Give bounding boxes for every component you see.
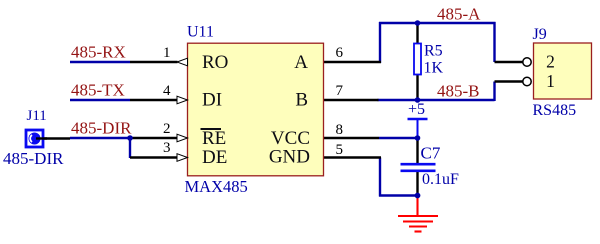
svg-text:A: A [294,52,308,73]
svg-text:RS485: RS485 [533,102,577,119]
svg-text:7: 7 [336,83,344,99]
svg-text:RE: RE [202,128,226,149]
svg-text:B: B [295,90,308,111]
svg-text:DI: DI [202,90,222,111]
svg-text:MAX485: MAX485 [185,177,248,196]
svg-text:1K: 1K [424,60,444,77]
svg-text:485-RX: 485-RX [71,43,126,62]
svg-text:GND: GND [269,147,310,168]
svg-text:+5: +5 [408,101,425,118]
svg-text:R5: R5 [424,43,443,60]
svg-text:J11: J11 [27,108,47,124]
svg-text:485-A: 485-A [437,5,481,24]
svg-text:C7: C7 [421,144,441,163]
svg-text:3: 3 [163,140,171,156]
svg-text:U11: U11 [187,24,214,41]
svg-text:1: 1 [546,71,555,91]
svg-text:485-B: 485-B [437,82,480,101]
svg-text:J9: J9 [533,26,547,43]
svg-text:1: 1 [163,45,171,61]
svg-text:0.1uF: 0.1uF [422,171,459,188]
svg-text:485-DIR: 485-DIR [3,149,64,168]
svg-text:8: 8 [336,122,344,138]
svg-text:RO: RO [202,52,228,73]
svg-text:485-TX: 485-TX [71,81,125,100]
svg-text:6: 6 [336,45,344,61]
svg-text:2: 2 [546,51,555,71]
svg-text:5: 5 [336,142,344,158]
svg-text:4: 4 [163,83,171,99]
svg-text:485-DIR: 485-DIR [71,119,132,138]
svg-text:DE: DE [202,147,227,168]
svg-text:2: 2 [163,121,171,137]
